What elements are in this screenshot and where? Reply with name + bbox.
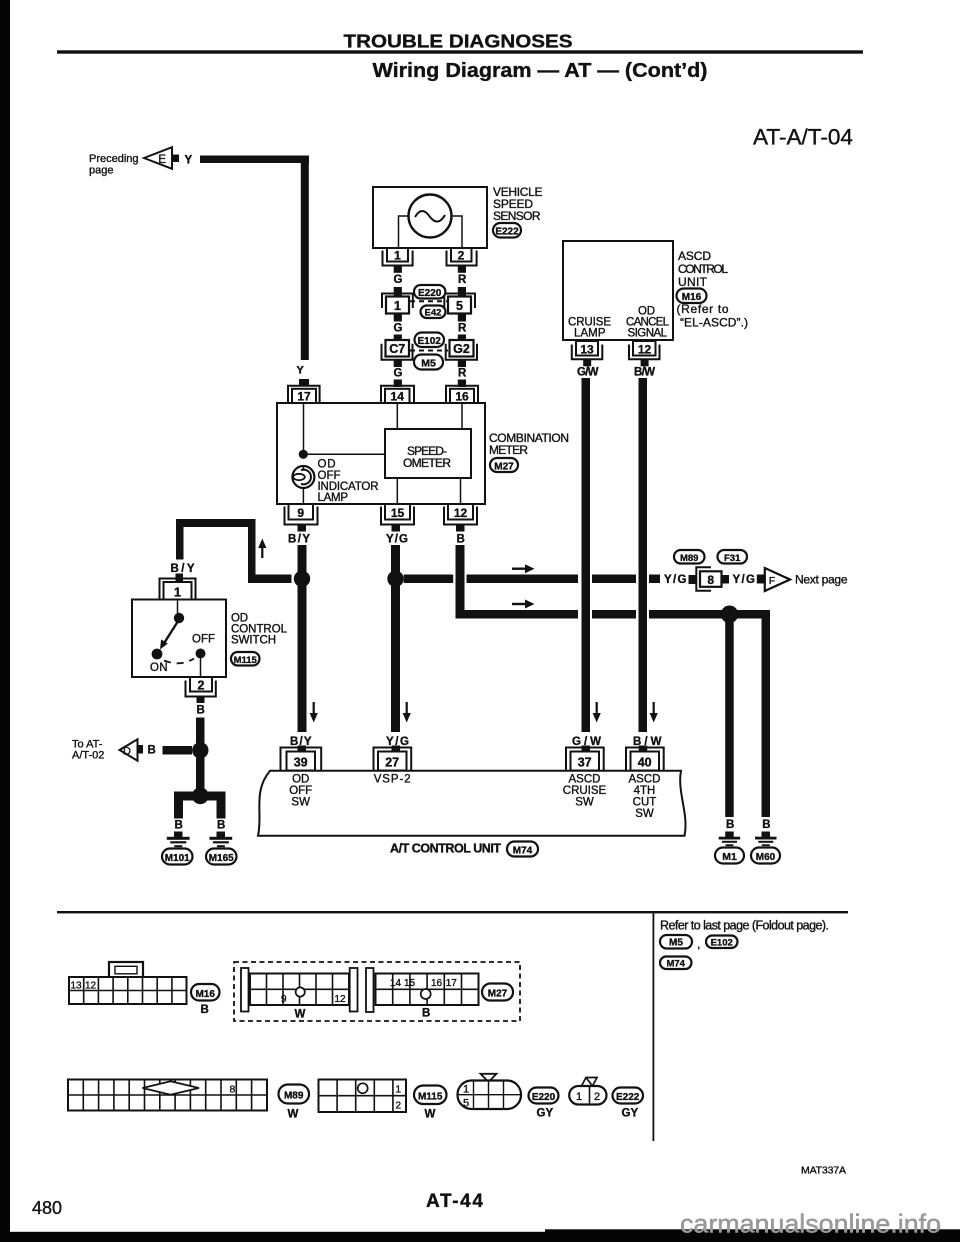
svg-text:B: B <box>148 745 156 757</box>
wire stub below pin 1 <box>394 266 402 273</box>
svg-text:W: W <box>295 1009 306 1021</box>
down arrow at G/W <box>593 702 601 723</box>
inline connector 1 <box>382 294 413 314</box>
svg-text:1: 1 <box>394 249 401 263</box>
wire Y horizontal from preceding page <box>200 156 309 164</box>
junction dot 1 <box>192 742 208 758</box>
connector ref E222 oval (view) <box>613 1088 644 1104</box>
junction dot in meter <box>299 450 308 459</box>
connector 8 <box>696 567 721 590</box>
meter internal lead from 14 <box>396 403 398 429</box>
svg-text:2: 2 <box>198 679 205 693</box>
label OD CANCEL SIGNAL <box>626 306 670 340</box>
svg-text:5: 5 <box>456 299 463 313</box>
svg-text:CRUISE: CRUISE <box>563 785 607 797</box>
ground ref M1 oval <box>715 848 744 864</box>
stub after connector 8 <box>722 575 730 584</box>
lower bus from B wire corner <box>456 610 579 619</box>
svg-text:METER: METER <box>489 443 528 457</box>
svg-text:AT-44: AT-44 <box>426 1191 483 1212</box>
svg-text:B: B <box>726 819 734 831</box>
ground branch right <box>200 792 226 819</box>
svg-text:ON: ON <box>150 662 168 674</box>
branch wire left vertical <box>176 519 184 560</box>
dashed junction line C7-G2 <box>410 350 448 352</box>
vehicle speed sensor generator symbol <box>409 195 452 238</box>
svg-text:OD: OD <box>318 459 336 471</box>
svg-text:E42: E42 <box>425 308 442 319</box>
svg-text:Refer to last page (Foldout pa: Refer to last page (Foldout page). <box>660 919 829 933</box>
svg-text:G: G <box>394 368 403 380</box>
switch ON contact dot <box>152 649 163 660</box>
inline connector 5 <box>444 294 475 314</box>
connector ref M74 oval <box>660 957 692 970</box>
stub above connector 17 <box>299 379 309 387</box>
connector ref M16 oval (view) <box>191 984 220 1001</box>
svg-text:480: 480 <box>32 1198 62 1218</box>
connector 16 <box>446 386 478 404</box>
svg-text:Y: Y <box>185 155 193 167</box>
svg-text:SW: SW <box>575 797 594 809</box>
down arrow at B/Y <box>310 702 318 723</box>
svg-text:2: 2 <box>594 1091 600 1103</box>
svg-text:(Refer to: (Refer to <box>677 302 729 316</box>
vertical divider line right of connector views <box>653 913 655 1141</box>
svg-text:12: 12 <box>638 343 652 357</box>
ASCD pin 13 <box>572 341 603 359</box>
junction dot B/Y <box>294 571 310 587</box>
OD OFF indicator lamp symbol <box>292 466 314 488</box>
svg-text:2: 2 <box>396 1101 402 1112</box>
upper bus segment G/W to B/W <box>592 575 636 584</box>
switch lever with arrow <box>160 622 178 650</box>
svg-text:1: 1 <box>396 1085 402 1096</box>
svg-text:M27: M27 <box>488 989 508 1000</box>
svg-text:B/W: B/W <box>634 367 655 379</box>
svg-text:“EL-ASCD”.): “EL-ASCD”.) <box>680 316 748 330</box>
dashed box around M27 views <box>234 962 520 1021</box>
svg-text:M115: M115 <box>418 1092 443 1103</box>
stub below pin 12 <box>641 359 649 366</box>
svg-text:R: R <box>458 274 467 286</box>
connector ref M27 oval <box>490 458 518 472</box>
svg-text:9: 9 <box>281 994 287 1005</box>
svg-text:13: 13 <box>71 981 83 992</box>
ground stub left <box>174 832 183 838</box>
svg-text:B/W: B/W <box>633 736 662 748</box>
stub below inline connector 1 <box>394 314 402 322</box>
switch connector 1 <box>160 579 196 600</box>
label ASCD CRUISE SW <box>563 774 607 809</box>
svg-text:1: 1 <box>394 299 401 313</box>
connector ref E220 oval (view) <box>529 1088 559 1104</box>
svg-text:GY: GY <box>622 1108 639 1120</box>
stub below pin 15 <box>392 525 401 532</box>
svg-text:E: E <box>158 154 166 166</box>
junction dot 2 <box>192 787 209 804</box>
sensor pin 1 <box>383 248 413 266</box>
svg-text:SW: SW <box>291 797 310 809</box>
svg-text:B: B <box>762 819 770 831</box>
down arrow at Y/G <box>403 702 411 723</box>
svg-text:GY: GY <box>537 1108 554 1120</box>
stub before next page arrow <box>757 575 765 584</box>
M27 view left grid <box>250 974 349 1006</box>
branch wire right vertical <box>248 519 256 583</box>
label To AT-A/T-02 <box>72 739 104 762</box>
stub below pin 13 <box>583 359 591 366</box>
stub above connector 14 <box>394 380 402 388</box>
lower bus arrow <box>512 600 535 609</box>
svg-text:B/Y: B/Y <box>288 534 310 546</box>
svg-text:1: 1 <box>174 586 181 600</box>
ground stub M1 <box>725 832 734 838</box>
svg-text:17: 17 <box>297 390 311 404</box>
svg-text:12: 12 <box>454 506 468 520</box>
ASCD pin 12 <box>629 341 660 359</box>
svg-text:15: 15 <box>391 506 405 520</box>
svg-text:Y: Y <box>297 365 305 377</box>
inline connector G2 <box>446 340 477 360</box>
connector ref M5 oval <box>414 355 443 370</box>
connector 14 <box>381 386 414 404</box>
svg-text:40: 40 <box>638 756 652 770</box>
svg-text:SWITCH: SWITCH <box>231 635 276 647</box>
vehicle speed sensor box <box>373 187 487 248</box>
M27 view left grid right bracket <box>350 968 358 1012</box>
meter internal lead from 17 <box>303 403 305 450</box>
svg-text:G2: G2 <box>453 342 470 356</box>
svg-text:Next page: Next page <box>795 572 848 586</box>
speedometer lead to pin 15 <box>396 478 398 504</box>
label ASCD CONTROL UNIT <box>678 249 728 289</box>
ground branch left <box>174 792 201 819</box>
connector view M16: grid <box>69 977 187 1004</box>
separator rule above connector views <box>57 911 848 913</box>
stub below connector 2 <box>197 697 205 704</box>
svg-text:Y/G: Y/G <box>664 574 687 586</box>
svg-text:F31: F31 <box>724 553 741 564</box>
to AT-A/T-02 arrow D <box>120 739 138 760</box>
meter internal lead from 16 <box>461 403 463 429</box>
svg-text:SENSOR: SENSOR <box>493 209 541 223</box>
switch connector 2 <box>186 677 216 697</box>
label CRUISE LAMP <box>568 317 611 340</box>
meter pin 15 <box>381 504 414 525</box>
ground ref M165 oval <box>206 849 237 865</box>
label OD OFF SW <box>289 774 312 809</box>
svg-text:B: B <box>422 1008 430 1020</box>
svg-text:CUT: CUT <box>633 797 657 809</box>
svg-text:MAT337A: MAT337A <box>801 1165 846 1177</box>
upper bus stub after B/W <box>649 575 660 584</box>
svg-text:W: W <box>425 1109 436 1121</box>
speedometer lead to pin 12 <box>460 478 462 504</box>
ground symbol M60 <box>755 837 777 846</box>
next page arrow F <box>765 568 790 591</box>
ground ref M60 oval <box>751 848 780 864</box>
sensor internal lead left <box>399 216 410 248</box>
svg-text:M89: M89 <box>680 553 698 564</box>
svg-text:M27: M27 <box>494 461 514 472</box>
svg-text:B: B <box>457 534 465 546</box>
wire G/W vertical <box>582 378 591 732</box>
svg-text:TROUBLE DIAGNOSES: TROUBLE DIAGNOSES <box>344 31 573 52</box>
svg-text:13: 13 <box>580 343 594 357</box>
connector 17 <box>288 386 320 404</box>
svg-text:G/W: G/W <box>577 367 599 379</box>
svg-text:CONTROL: CONTROL <box>678 262 728 276</box>
svg-text:OMETER: OMETER <box>403 456 451 470</box>
svg-text:D: D <box>123 746 131 758</box>
svg-text:R: R <box>458 368 467 380</box>
branch wire top horizontal <box>176 519 256 527</box>
svg-text:E102: E102 <box>418 336 442 347</box>
connector view E220 <box>458 1074 522 1110</box>
stub at arrow D <box>136 745 144 754</box>
M27 view right grid <box>376 974 479 1006</box>
svg-text:M60: M60 <box>756 852 776 863</box>
connector view E222 <box>569 1078 606 1105</box>
svg-text:12: 12 <box>85 981 97 992</box>
svg-text:,: , <box>697 937 700 951</box>
meter pin 9 <box>285 504 318 525</box>
label ASCD 4TH CUT SW <box>629 774 661 821</box>
wire M60 ground vertical <box>762 610 771 817</box>
svg-text:B/Y: B/Y <box>171 563 195 575</box>
connector ref M115 oval (view) <box>414 1086 447 1105</box>
svg-text:B: B <box>175 820 183 832</box>
down arrow at B/W <box>650 702 658 723</box>
stub below pin 12 <box>456 525 465 532</box>
svg-text:15: 15 <box>404 978 416 989</box>
junction dot Y/G <box>387 571 403 587</box>
AT unit connector 39 <box>281 746 322 771</box>
svg-text:39: 39 <box>294 756 308 770</box>
svg-text:Preceding: Preceding <box>89 153 139 165</box>
stub before connector 8 <box>689 575 697 584</box>
svg-text:M1: M1 <box>722 851 737 863</box>
dashed junction line 1-5 <box>410 300 447 302</box>
svg-text:B: B <box>197 705 205 717</box>
ground symbol M1 <box>719 837 741 846</box>
connector ref E102 oval <box>415 333 445 348</box>
svg-text:4TH: 4TH <box>634 785 656 797</box>
switch internal lead from 1 <box>177 600 179 614</box>
svg-text:16: 16 <box>431 978 443 989</box>
svg-text:M5: M5 <box>669 938 683 949</box>
svg-text:OFF: OFF <box>192 634 215 646</box>
svg-text:C7: C7 <box>389 342 405 356</box>
svg-text:12: 12 <box>335 994 347 1005</box>
svg-text:M74: M74 <box>513 846 533 857</box>
label VEHICLE SPEED SENSOR <box>493 185 543 223</box>
ground stub right <box>217 832 226 838</box>
wire B vertical to junction <box>196 718 205 744</box>
svg-text:AT-A/T-04: AT-A/T-04 <box>753 125 853 150</box>
svg-text:1: 1 <box>576 1091 582 1103</box>
meter internal lead to speedometer <box>303 453 385 455</box>
preceding page label <box>89 153 139 177</box>
connector ref F31 oval <box>718 550 748 564</box>
svg-text:8: 8 <box>230 1084 236 1096</box>
svg-text:G: G <box>394 274 403 286</box>
upper bus segment Y/G dot to B wire <box>404 575 454 584</box>
connector ref E220 oval <box>414 285 445 299</box>
ASCD control unit box <box>563 241 673 340</box>
svg-text:M74: M74 <box>666 959 685 970</box>
svg-text:A/T CONTROL UNIT: A/T CONTROL UNIT <box>390 842 501 856</box>
svg-text:page: page <box>89 165 113 177</box>
svg-text:17: 17 <box>446 978 458 989</box>
A/T control unit box <box>258 771 686 836</box>
header rule <box>57 50 863 53</box>
svg-text:LAMP: LAMP <box>574 328 606 340</box>
svg-text:E102: E102 <box>711 938 733 949</box>
svg-text:LAMP: LAMP <box>318 492 349 504</box>
connector view M89 grid <box>68 1080 267 1111</box>
branch wire to AT-A/T-02 <box>163 746 193 755</box>
svg-text:B: B <box>201 1004 209 1016</box>
combination meter box <box>277 403 485 504</box>
wire B vertical from meter pin 12 <box>456 545 465 618</box>
connector ref E222 oval <box>493 223 521 238</box>
wire between junction dots <box>196 758 205 790</box>
svg-text:M5: M5 <box>421 358 436 370</box>
connector ref M74 oval <box>507 842 538 857</box>
label OD OFF INDICATOR LAMP <box>318 459 379 505</box>
preceding page arrow E <box>144 147 172 169</box>
lamp lead to pin 9 <box>302 488 304 504</box>
svg-text:2: 2 <box>458 249 465 263</box>
svg-text:R: R <box>458 323 467 335</box>
svg-text:OFF: OFF <box>318 470 341 482</box>
connector view M16: tab <box>109 962 143 978</box>
svg-text:14: 14 <box>391 390 405 404</box>
svg-text:Wiring Diagram — AT — (Cont’d): Wiring Diagram — AT — (Cont’d) <box>373 60 708 82</box>
svg-text:E220: E220 <box>532 1092 556 1103</box>
lower bus segment B/W to corner <box>649 610 770 619</box>
svg-text:8: 8 <box>707 573 714 587</box>
wire B/W vertical <box>639 378 648 732</box>
label COMBINATION METER <box>489 431 569 457</box>
svg-text:Y/G: Y/G <box>733 574 756 586</box>
wire B/Y vertical meter to connector 39 <box>298 545 307 732</box>
connector ref M89 oval (view) <box>279 1085 310 1104</box>
stub at arrow E <box>172 155 179 163</box>
svg-text:UNIT: UNIT <box>678 275 708 289</box>
wire M1 ground vertical <box>725 620 734 817</box>
svg-text:carmanualsonline.info: carmanualsonline.info <box>680 1209 941 1239</box>
svg-text:VSP-2: VSP-2 <box>374 774 411 786</box>
wire Y vertical down to connector 17 <box>301 156 309 361</box>
connector ref M89 oval <box>674 550 705 564</box>
svg-text:ASCD: ASCD <box>678 249 711 263</box>
svg-text:M165: M165 <box>209 853 234 864</box>
M27 view right bracket <box>366 968 374 1012</box>
bottom black bar <box>0 1232 545 1242</box>
ground ref M101 oval <box>162 849 193 865</box>
upper bus segment B wire to G/W wire <box>467 575 579 584</box>
AT unit connector 40 <box>626 746 664 771</box>
svg-text:M89: M89 <box>284 1091 304 1102</box>
connector view M115 grid <box>319 1080 407 1113</box>
switch internal lead to 2 <box>200 659 202 679</box>
svg-text:27: 27 <box>385 756 399 770</box>
svg-text:G: G <box>394 323 403 335</box>
svg-text:SIGNAL: SIGNAL <box>628 328 668 340</box>
connector ref M5 oval <box>660 935 692 949</box>
svg-text:OD: OD <box>292 774 309 786</box>
speedometer box <box>385 429 471 478</box>
ground symbol M101 <box>167 837 190 847</box>
svg-text:E220: E220 <box>418 288 442 299</box>
dashed travel arc <box>164 659 194 664</box>
stub below inline connector 5 <box>458 314 466 322</box>
svg-text:SW: SW <box>635 808 654 820</box>
svg-text:A/T-02: A/T-02 <box>72 750 104 762</box>
connector ref M27 oval (view) <box>482 984 513 1001</box>
inline connector C7 <box>382 340 413 360</box>
svg-text:E222: E222 <box>616 1092 640 1103</box>
svg-text:W: W <box>288 1109 299 1121</box>
branch wire to OD switch: bottom horizontal <box>248 575 292 584</box>
stub above inline connector G2 <box>458 335 466 342</box>
stub above connector 16 <box>458 380 466 388</box>
svg-text:M115: M115 <box>234 655 258 666</box>
connector ref E42 oval <box>421 306 446 319</box>
svg-text:1: 1 <box>463 1084 469 1096</box>
wire stub below pin 2 <box>458 266 466 273</box>
svg-text:B: B <box>217 820 225 832</box>
ground stub M60 <box>762 832 771 838</box>
stub below C7 <box>394 360 402 367</box>
AT unit connector 37 <box>566 746 604 771</box>
OD control switch box <box>132 600 226 678</box>
junction dot on lower bus <box>721 606 739 624</box>
connector ref M16 oval <box>677 289 707 304</box>
label OD CONTROL SWITCH <box>231 613 288 647</box>
stub above inline connector 1 <box>394 287 402 296</box>
sensor pin 2 <box>447 248 477 266</box>
up arrow on branch <box>258 539 266 559</box>
connector ref E102 oval <box>706 936 738 949</box>
svg-text:M101: M101 <box>165 853 190 864</box>
upper bus arrow <box>512 564 535 573</box>
ground symbol M165 <box>209 837 232 847</box>
svg-text:5: 5 <box>463 1098 469 1110</box>
meter pin 12 <box>444 504 477 525</box>
AT unit connector 27 <box>374 746 412 771</box>
note refer to EL-ASCD <box>677 302 749 330</box>
switch OFF contact dot <box>196 649 206 659</box>
lower bus segment G/W to B/W <box>592 610 636 619</box>
stub above inline connector 5 <box>458 287 466 296</box>
svg-text:37: 37 <box>578 756 592 770</box>
svg-text:Y/G: Y/G <box>386 534 408 546</box>
connector ref M115 oval <box>231 652 260 666</box>
stub below G2 <box>458 360 466 367</box>
svg-text:9: 9 <box>297 506 304 520</box>
M27 view left bracket <box>241 968 249 1012</box>
svg-text:M16: M16 <box>195 989 215 1000</box>
svg-text:ASCD: ASCD <box>569 774 601 786</box>
left edge black bar <box>0 0 10 1242</box>
switch pivot dot <box>174 613 184 623</box>
svg-text:16: 16 <box>455 390 469 404</box>
svg-text:14: 14 <box>390 978 402 989</box>
stub below pin 9 <box>298 525 307 532</box>
